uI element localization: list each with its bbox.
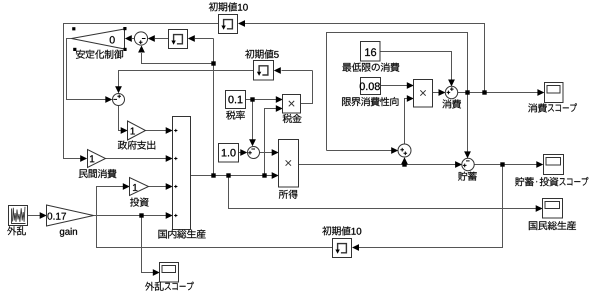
junction 消費 out 1 <box>465 90 469 94</box>
value 0.08 <box>360 83 380 91</box>
label 貯蓄 <box>458 172 477 181</box>
value 1 of 民間消費 <box>90 155 94 162</box>
wire 外乱 out to gain in <box>28 215 41 217</box>
value 1.0 <box>222 149 236 157</box>
memory delayed GDP body <box>169 30 188 49</box>
memory 初期値10 bottom body <box>333 239 352 258</box>
constant 1.0 <box>219 144 239 163</box>
junction 貯蓄 out <box>500 162 504 166</box>
所得 body <box>279 140 299 188</box>
junction GDP out 3 <box>262 173 266 177</box>
value 0.17 <box>48 213 67 220</box>
wire sum3 out to 所得 in1 <box>260 152 273 154</box>
sum 消費 <box>445 86 457 98</box>
junction GDP out 2 <box>226 173 230 177</box>
label 外乱スコープ <box>145 282 194 291</box>
junction GDP feedback <box>211 61 215 65</box>
label 税率 <box>226 111 245 120</box>
label 安定化制御 <box>76 50 123 59</box>
gain 安定化制御 (flipped, value 0) <box>72 29 125 49</box>
label 投資 <box>130 198 149 207</box>
scope 国民総生産 <box>543 199 563 219</box>
sum2 for 政府支出 <box>113 94 125 106</box>
value 0 of 安定化制御 <box>110 36 115 43</box>
label 政府支出 <box>118 141 155 150</box>
wire loop to sum4 left <box>327 150 392 152</box>
税金 body <box>283 95 301 114</box>
wire GDP out to 所得 in2 <box>191 175 273 177</box>
constant 0.08 <box>361 78 381 95</box>
wire 消費 loop around <box>327 33 468 151</box>
value 0.1 <box>228 96 242 104</box>
sum3 所得 input <box>248 147 260 159</box>
wire 税率 branch to sum3 top <box>252 100 254 140</box>
label 限界消費性向 <box>342 97 398 106</box>
value 1 of 投資 <box>133 184 137 191</box>
junction 税率 out <box>250 97 254 101</box>
wire 安定化制御 out to sum2 <box>67 39 106 100</box>
gain 政府支出 <box>128 121 146 140</box>
wire 貯蓄 branch to 初期値10b in <box>359 165 503 248</box>
label 消費 <box>443 99 462 108</box>
wire 消費 out to 消費スコープ <box>458 92 538 94</box>
label 初期値10 bottom <box>322 226 361 235</box>
product body <box>414 80 433 108</box>
memory 初期値10 top body <box>219 15 238 34</box>
wire 消費 branch down to 貯蓄 top <box>467 93 469 152</box>
selection handles of 安定化制御 <box>72 27 75 30</box>
label 貯蓄・投資スコープ <box>515 177 588 186</box>
wire 投資 out to GDP in3 <box>149 186 167 188</box>
scope 外乱スコープ <box>160 263 179 283</box>
junction 消費 out 2 <box>482 90 486 94</box>
wire product out to 消費 sum in <box>433 92 439 94</box>
wire GDP branch to memory in <box>195 38 214 40</box>
label 初期値10 top <box>209 2 248 11</box>
wire 貯蓄 out to scope <box>474 164 536 166</box>
wire GDP branch to 国民総生産 scope <box>229 176 537 209</box>
junction 所得 line <box>402 162 406 166</box>
sum 貯蓄 <box>462 158 474 170</box>
memory 初期値5 body <box>254 61 274 81</box>
value 16 <box>365 48 376 56</box>
label 民間消費 <box>79 169 117 178</box>
label 最低限の消費 <box>342 63 399 72</box>
wire GDP to sum dY bottom <box>142 53 214 64</box>
sum dY (GDP minus delayed) <box>134 32 147 45</box>
wire memory out to sum dY in <box>155 38 169 40</box>
wire 税金 up to 初期値5 in <box>282 70 313 72</box>
wire 初期値10 out to 民間消費 in <box>64 24 219 159</box>
label 外乱 <box>7 226 25 235</box>
label 国民総生産 <box>529 221 576 230</box>
gain 民間消費 <box>88 150 106 168</box>
外乱 body <box>9 206 28 226</box>
label 所得 <box>279 190 298 199</box>
constant 0.1 税率 <box>226 91 246 109</box>
wire 初期値5 out to sum2 top <box>119 71 254 87</box>
junction gain out <box>139 213 143 217</box>
wire sum dY out to 安定化制御 in <box>132 38 134 40</box>
wire 税率 out to 税金 in1 <box>246 99 277 101</box>
gain 投資 <box>130 178 149 196</box>
wire gain out to GDP in4 <box>94 215 167 217</box>
wire 0.08 out to product in1 <box>381 85 408 87</box>
wire 1.0 out to sum3 in <box>239 152 241 154</box>
wire 初期値10b out to 投資 in <box>97 187 333 248</box>
wire 民間消費 out to GDP in2 <box>106 158 167 160</box>
wire GDP branch to 税金 in2 <box>265 109 277 176</box>
wire gain branch to 外乱スコープ <box>142 216 154 273</box>
scope 消費スコープ <box>545 83 564 103</box>
wire sum2 out to 政府支出 in <box>119 106 122 131</box>
constant 16 <box>361 42 381 62</box>
label 国内総生産 <box>159 230 206 239</box>
value 1 of 政府支出 <box>131 128 135 135</box>
wire vertical GDP feedback <box>213 39 215 176</box>
sum4 消費ループ <box>398 144 411 157</box>
arrow into sum4 bottom <box>401 157 408 164</box>
label 税金 <box>283 114 302 123</box>
wire 16 out to 消費 sum top <box>380 52 452 81</box>
wire 所得 out to 貯蓄 in <box>299 164 456 166</box>
scope 貯蓄・投資スコープ <box>544 155 564 175</box>
国内総生産 body <box>173 117 191 230</box>
junction GDP out 1 <box>211 173 215 177</box>
label 初期値5 <box>245 50 279 59</box>
label 消費スコープ <box>528 103 577 112</box>
gain 0.17 <box>47 205 94 226</box>
wire 消費 branch up to 初期値10 in <box>245 24 485 93</box>
wire sum4 out to product in2 <box>405 99 408 145</box>
wire 政府支出 out to GDP in1 <box>146 130 167 132</box>
wire 税金 out up <box>301 71 313 104</box>
label gain <box>60 228 77 237</box>
